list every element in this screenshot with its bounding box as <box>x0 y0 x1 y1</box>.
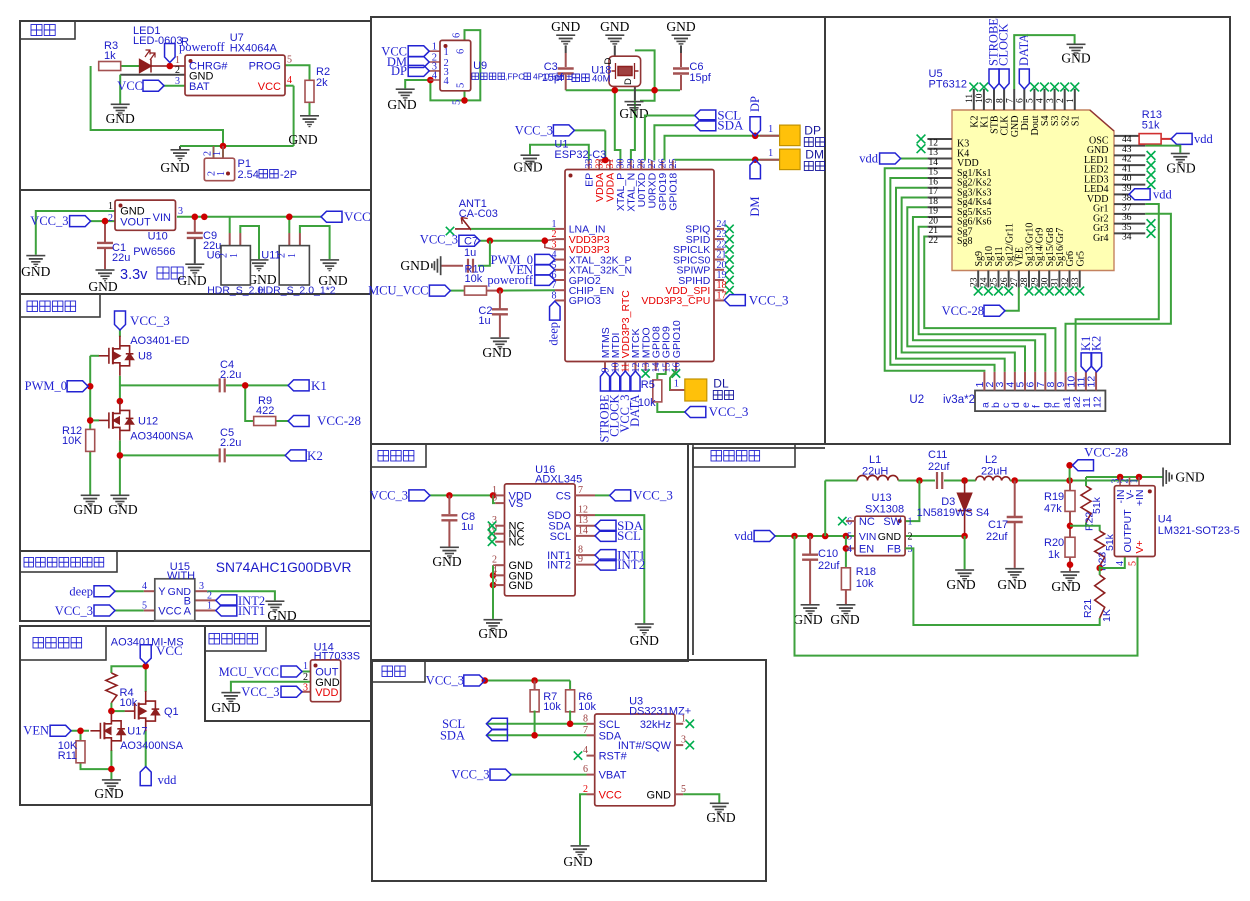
svg-text:GND: GND <box>21 264 50 279</box>
U4 pin stubs top <box>1120 477 1139 486</box>
svg-text:22uH: 22uH <box>981 466 1007 478</box>
svg-text:29: 29 <box>1030 277 1040 287</box>
U5 right pin 34 stub <box>1114 232 1145 234</box>
resistor R13 body <box>1139 134 1161 145</box>
wire K2 node <box>120 454 219 456</box>
ground sym R12 <box>81 495 100 507</box>
wire bundle Sg4 to U2 pin 4 <box>902 197 1015 371</box>
U5 top pin 5 noconnect x <box>1030 83 1039 92</box>
svg-text:R5: R5 <box>641 379 655 391</box>
U16 right pin 7 stub <box>575 494 595 496</box>
port VCC_3 power <box>70 216 91 227</box>
svg-text:U2: U2 <box>909 394 924 406</box>
wire PROG pin5 to R2 <box>285 65 310 80</box>
section frame clock <box>372 660 766 881</box>
svg-text:R11: R11 <box>58 750 77 762</box>
port VCC_3 u16 cs <box>610 490 631 501</box>
svg-text:GND: GND <box>666 19 695 34</box>
svg-text:+IN: +IN <box>1134 490 1146 507</box>
resistor R12 <box>86 429 95 451</box>
port VCC power out <box>321 211 342 222</box>
wire mid to R22 bottom <box>1070 523 1086 526</box>
svg-text:U4: U4 <box>1158 514 1172 526</box>
svg-text:D: D <box>603 58 614 65</box>
junction U4 pin1 <box>1136 474 1143 481</box>
port DATA u5 <box>1019 69 1029 89</box>
ground sym U3 vcc <box>571 845 590 857</box>
U5 bottom pin 31 noconnect x <box>1055 287 1064 296</box>
svg-text:VS: VS <box>509 498 524 510</box>
U5 right pin 40 stub <box>1114 174 1145 176</box>
capacitor C7 <box>468 259 473 273</box>
port VCC_3 top <box>553 125 574 136</box>
svg-text:5: 5 <box>681 784 686 795</box>
svg-text:10k: 10k <box>578 701 596 713</box>
junction clock r7 <box>531 677 538 684</box>
svg-text:1: 1 <box>1066 98 1076 103</box>
junction R23 bottom <box>1096 565 1103 572</box>
svg-text:20: 20 <box>929 216 939 226</box>
svg-text:ADXL345: ADXL345 <box>535 474 582 486</box>
svg-text:L1: L1 <box>869 454 881 466</box>
U3 left pin 8 stub <box>587 723 595 725</box>
svg-text:vdd: vdd <box>859 152 879 166</box>
U1 right pin 24 stub <box>714 228 724 230</box>
svg-text:5: 5 <box>1128 561 1139 566</box>
svg-text:NC: NC <box>859 516 875 528</box>
svg-text:GND: GND <box>513 160 542 175</box>
port VCC_3 clock <box>464 675 485 686</box>
svg-text:vdd: vdd <box>158 773 178 787</box>
svg-text:Gr5: Gr5 <box>1075 251 1086 267</box>
U1 pin1 dot <box>569 174 573 178</box>
svg-text:1k: 1k <box>104 50 116 62</box>
svg-text:VCC_3: VCC_3 <box>451 768 489 782</box>
wire U12 drain up <box>119 399 121 402</box>
svg-text:GND: GND <box>1166 161 1195 176</box>
U5 top pin 3 noconnect x <box>1050 83 1059 92</box>
wire xtal n down to pin29 <box>631 100 635 161</box>
wire xtal loop right <box>635 50 655 90</box>
U9 note cjk3 <box>557 73 572 80</box>
ground sym U1 left <box>521 154 540 166</box>
ground sym xtal bottom <box>625 101 644 113</box>
wire R7 bottom <box>534 711 536 736</box>
inductor L2 <box>976 476 1010 480</box>
svg-text:2.2u: 2.2u <box>220 369 241 381</box>
wire c2 to gnd <box>499 315 501 337</box>
svg-text:5: 5 <box>287 55 292 66</box>
title box gyro interrupt <box>20 551 117 572</box>
svg-text:SCL: SCL <box>617 528 641 543</box>
svg-text:GND: GND <box>88 279 117 294</box>
U1 right pin 18 stub <box>714 289 724 291</box>
U1 bottom pin 16 stub <box>675 362 677 372</box>
U16 right pin 8 stub <box>575 554 595 556</box>
port vdd boost invert <box>754 531 775 542</box>
svg-text:C7: C7 <box>464 236 478 248</box>
svg-text:1: 1 <box>908 517 913 528</box>
U15 pin5 stub <box>144 610 155 612</box>
svg-text:U9: U9 <box>473 60 487 72</box>
U5 top pin 10 stub <box>983 89 985 110</box>
svg-text:33: 33 <box>584 159 595 169</box>
svg-text:51k: 51k <box>1091 496 1103 514</box>
IC U15 body <box>155 579 195 621</box>
U5 right pin 42 noconnect x <box>1147 151 1156 160</box>
svg-text:EN: EN <box>859 543 874 555</box>
U5 bottom pin 23 noconnect x <box>974 287 983 296</box>
ground sym C17 <box>1005 568 1024 580</box>
IC U16 ADXL345 body <box>505 484 576 596</box>
svg-text:vdd: vdd <box>1153 188 1173 202</box>
ground sym U15 <box>265 600 284 612</box>
svg-text:U17: U17 <box>127 726 147 738</box>
svg-text:1: 1 <box>674 379 679 390</box>
connector U2 body <box>975 391 1105 412</box>
junction gate node <box>108 708 115 715</box>
svg-text:iv3a*2: iv3a*2 <box>943 394 975 406</box>
title box gyroscope <box>371 444 426 467</box>
capacitor C1 <box>97 243 113 248</box>
title text gyroscope <box>378 451 414 462</box>
U5 bottom pin 30 noconnect x <box>1045 287 1054 296</box>
ground sym U3 gnd5 <box>710 803 729 815</box>
U1 left pin 7 stub <box>555 289 565 291</box>
svg-text:VCC_3: VCC_3 <box>515 124 553 138</box>
U2 pin 2 stub <box>994 372 996 391</box>
wire C3 down <box>565 75 567 90</box>
svg-text:3: 3 <box>303 683 308 694</box>
svg-text:U10: U10 <box>148 231 168 243</box>
wire VEN to U17 gate <box>71 730 89 732</box>
svg-text:3: 3 <box>681 735 686 746</box>
port VEN center <box>535 265 555 276</box>
wire vcc3 drop <box>604 130 606 160</box>
U5 right pin 41 noconnect x <box>1147 161 1156 170</box>
svg-text:1K: 1K <box>1101 609 1113 622</box>
wire bundle Sg6 to U2 pin 6 <box>913 217 1035 372</box>
U16 left pin 2 stub <box>495 564 504 566</box>
U15 pin2 stub <box>195 599 216 601</box>
U5 right pin 39 noconnect x <box>1147 180 1156 189</box>
junction c7 node <box>487 237 494 244</box>
resistor R2 <box>305 80 314 102</box>
junction chip_en c2 <box>497 287 504 294</box>
U1 vdd3p3 stubs <box>545 239 555 249</box>
svg-text:VCC: VCC <box>258 81 281 93</box>
U5 left pin 18 stub <box>927 197 952 199</box>
svg-text:VCC_3: VCC_3 <box>633 488 673 503</box>
U5 bottom pin 27 stub <box>1018 271 1020 288</box>
svg-text:R: R <box>181 36 189 48</box>
svg-text:6: 6 <box>452 33 463 38</box>
wire xtal p down to pin30 <box>615 90 621 160</box>
title box charging <box>20 21 75 39</box>
svg-text:AO3400NSA: AO3400NSA <box>120 740 184 752</box>
title text gyro interrupt <box>24 558 104 568</box>
svg-text:WITH: WITH <box>167 570 195 582</box>
U5 bottom pin 25 stub <box>998 271 1000 288</box>
svg-text:7: 7 <box>578 485 583 496</box>
U5 top pin 6 stub <box>1023 89 1025 110</box>
wire R18 to gnd <box>845 590 847 604</box>
ground sym U7 pin2 <box>111 104 130 116</box>
svg-text:26: 26 <box>658 159 669 169</box>
svg-text:GND: GND <box>1175 470 1204 485</box>
svg-text:VDD: VDD <box>315 687 338 699</box>
wire R3 right to LED anode <box>120 65 139 67</box>
wire R7 top <box>534 681 536 692</box>
U1 left pin 6 stub <box>555 279 565 281</box>
port VCC-28 u5 <box>984 305 1005 316</box>
junction U12 gate <box>87 417 94 424</box>
junction VEN <box>77 728 84 735</box>
U3 right pin 3 stub <box>675 744 683 746</box>
svg-text:SCL: SCL <box>599 719 620 731</box>
svg-text:21: 21 <box>929 226 939 236</box>
port vdd boost <box>140 767 151 786</box>
U3 left pin 7 stub <box>587 734 595 736</box>
svg-text:33: 33 <box>1071 277 1081 287</box>
svg-text:4: 4 <box>142 581 147 592</box>
svg-text:VCC: VCC <box>156 643 183 658</box>
IC U3 DS3231MZ+ body <box>595 714 675 806</box>
svg-text:1: 1 <box>108 201 113 212</box>
wire DM pad net <box>675 159 779 162</box>
U1 right pin 22 stub <box>714 248 724 250</box>
junction GND net P1 <box>220 143 227 150</box>
wire bundle Sg7 to U2 pin 7 <box>919 227 1046 372</box>
port SCL center <box>695 110 716 121</box>
svg-text:2: 2 <box>108 213 113 224</box>
title box boost control <box>20 626 106 660</box>
svg-text:PW6566: PW6566 <box>133 246 175 258</box>
ground sym below R2 <box>300 115 319 127</box>
wire DP pad stub <box>760 135 780 137</box>
svg-text:5: 5 <box>142 601 147 612</box>
svg-text:1: 1 <box>768 124 773 135</box>
U4 pin1 dot <box>1148 489 1152 493</box>
U16 right pin 12 stub <box>575 514 595 516</box>
wire R20 bottom <box>1069 557 1071 571</box>
U16 NC x at 533.7 <box>488 530 496 538</box>
junction K2 <box>117 452 124 459</box>
svg-text:BAT: BAT <box>189 81 210 93</box>
U5 bottom pin 31 stub <box>1058 271 1060 288</box>
svg-text:GND: GND <box>73 502 102 517</box>
wire deep port to pin4 <box>115 590 144 592</box>
svg-text:32kHz: 32kHz <box>640 719 671 731</box>
svg-text:47k: 47k <box>1044 503 1062 515</box>
U16 left pin 4 stub <box>495 574 504 576</box>
U1 top pin 30 stub <box>619 161 621 170</box>
U5 left pin 19 stub <box>927 206 952 208</box>
svg-text:3: 3 <box>175 76 180 87</box>
port K2 <box>285 450 306 461</box>
wire DL pad net <box>670 371 680 390</box>
U1 right pin 19 stub <box>714 279 724 281</box>
transistor U12 AO3400NSA <box>99 400 133 440</box>
U5 right pin 37 stub <box>1114 203 1145 205</box>
wire SCL from port <box>645 116 695 161</box>
capacitor C8 <box>441 515 457 520</box>
svg-text:43: 43 <box>1122 145 1132 155</box>
svg-text:6: 6 <box>583 764 588 775</box>
wire vcc to R4 top <box>111 666 145 673</box>
svg-text:22uf: 22uf <box>928 461 950 473</box>
port INT2 u16 <box>595 559 616 570</box>
svg-text:8: 8 <box>583 713 588 724</box>
port DM usb <box>408 57 429 68</box>
port PWM_0 <box>67 381 88 392</box>
label DL pad cjk <box>713 391 733 400</box>
wire L1 branch up <box>824 481 826 537</box>
svg-text:GND: GND <box>211 700 240 715</box>
crystal U18 glyph <box>612 63 639 79</box>
port VCC charging <box>143 80 164 91</box>
port INT1 <box>216 605 237 616</box>
svg-text:HDR_S_2.0: HDR_S_2.0 <box>207 285 263 297</box>
wire R3 left to GND rail <box>91 66 223 146</box>
svg-text:41: 41 <box>1122 164 1132 174</box>
svg-text:INT2: INT2 <box>617 557 645 572</box>
svg-text:8: 8 <box>995 98 1005 103</box>
U1 top pin 28 stub <box>640 161 642 170</box>
U5 right pin 42 stub <box>1114 154 1145 156</box>
svg-text:1: 1 <box>432 42 437 53</box>
U10 pin1 dot <box>119 204 123 208</box>
wire R19 top <box>1069 481 1071 491</box>
svg-text:4: 4 <box>583 745 588 756</box>
junction VIN u11 <box>286 214 293 221</box>
wire U11 pin2 drop <box>288 217 290 233</box>
svg-text:10K: 10K <box>62 435 82 447</box>
U1 right pin 17 stub <box>714 299 724 301</box>
wire DL pad stub <box>670 389 685 391</box>
svg-text:VIN: VIN <box>859 531 877 543</box>
U5 top pin 10 noconnect x <box>980 83 989 92</box>
wire U6 pin2 drop <box>229 217 231 233</box>
wire C8 drop <box>448 495 450 514</box>
wire C17 to gnd <box>1014 523 1016 568</box>
port VCC-28 bi <box>1073 460 1094 471</box>
U5 left pin 20 stub <box>927 216 952 218</box>
U16 NC x at 525.7 <box>488 522 496 530</box>
svg-text:INT#/SQW: INT#/SQW <box>618 740 672 752</box>
svg-text:GND: GND <box>160 160 189 175</box>
ground sym C8 <box>440 547 459 559</box>
U1 bottom pin 10 stub <box>614 362 616 372</box>
wire LED cathode to junction <box>151 65 185 67</box>
svg-text:44: 44 <box>1122 135 1132 145</box>
svg-text:VCC: VCC <box>344 209 371 224</box>
svg-text:HX4064A: HX4064A <box>230 43 278 55</box>
U5 right pin 34 noconnect x <box>1147 229 1156 238</box>
port INT1 u16 <box>595 550 616 561</box>
connector U11 body <box>279 246 309 285</box>
junction xtal rail right <box>651 87 658 94</box>
port K2 u2 <box>1092 353 1102 372</box>
wire L1 to C11 <box>898 480 935 482</box>
wire C1 branch down <box>104 221 106 243</box>
svg-text:poweroff: poweroff <box>487 273 533 287</box>
wire gnd3 stem <box>680 46 682 53</box>
U16 gnd stubs <box>493 565 505 585</box>
wire pin3 to gnd <box>207 591 275 600</box>
svg-text:GND: GND <box>267 608 296 623</box>
svg-text:Y: Y <box>158 586 166 598</box>
title box boost invert <box>693 444 795 467</box>
wire junction to K1 port <box>245 384 288 386</box>
U16 left pin 1 stub <box>495 494 504 496</box>
svg-text:AO3401-ED: AO3401-ED <box>130 335 189 347</box>
wire pin2 GND left <box>120 74 185 76</box>
svg-text:1: 1 <box>444 47 449 58</box>
port VCC_3 gyro int <box>94 605 115 616</box>
svg-text:1u: 1u <box>461 521 473 533</box>
svg-text:GND: GND <box>478 626 507 641</box>
wire U9 pin5 down <box>464 91 466 101</box>
wire c2 drop <box>499 291 501 309</box>
ground sym C1 <box>96 269 115 281</box>
svg-text:17: 17 <box>929 187 939 197</box>
wire R19 R20 link <box>1069 511 1071 537</box>
svg-text:18: 18 <box>929 197 939 207</box>
wire R12 top <box>89 420 91 430</box>
U5 bottom pin 28 stub <box>1028 271 1030 288</box>
wire C6 top <box>680 53 682 67</box>
svg-text:VCC_3: VCC_3 <box>709 404 749 419</box>
capacitor C10 <box>802 555 818 560</box>
svg-text:GND: GND <box>630 633 659 648</box>
wire VEE pin27 to VCC-28 <box>1005 288 1019 311</box>
wire C9 down <box>194 217 196 233</box>
svg-text:32: 32 <box>1061 277 1071 287</box>
port vdd u5 38 <box>1129 189 1150 200</box>
port vdd u5 left <box>880 153 901 164</box>
junction D3 top <box>961 477 968 484</box>
ground sym R18 <box>836 604 855 616</box>
U5 bottom pin 33 stub <box>1079 271 1081 288</box>
U5 right pin 38 stub <box>1114 193 1129 195</box>
ground sym U6 <box>250 259 269 271</box>
wire R9 to VCC-28 <box>275 420 288 422</box>
U5 left pin 14 stub <box>927 158 952 160</box>
svg-text:A: A <box>184 606 192 618</box>
U1 left pin 3 stub <box>555 248 565 250</box>
svg-text:VCC_3: VCC_3 <box>241 685 279 699</box>
junction bi C10 <box>807 533 814 540</box>
svg-text:AO3400NSA: AO3400NSA <box>130 431 194 443</box>
wire R23 to R21 <box>1099 566 1101 575</box>
junction vdda <box>602 157 609 164</box>
IC U1 ESP32-C3 body <box>565 170 714 362</box>
wire Q1 drain down to vdd <box>145 730 147 767</box>
port VCC_3 r5 <box>685 407 706 418</box>
svg-text:30: 30 <box>616 159 627 169</box>
svg-text:2: 2 <box>583 784 588 795</box>
svg-text:VCC_3: VCC_3 <box>370 489 408 503</box>
svg-text:GPIO18: GPIO18 <box>668 173 680 211</box>
U5 left pin 22 stub <box>927 236 952 238</box>
title text boost invert <box>711 451 760 462</box>
ground sym left power <box>26 255 45 267</box>
U3 right pin 1 stub <box>675 723 683 725</box>
wire VCC_3 to pin3 <box>302 691 311 693</box>
svg-text:VBAT: VBAT <box>599 770 627 782</box>
U2 pin 7 stub <box>1044 372 1046 391</box>
